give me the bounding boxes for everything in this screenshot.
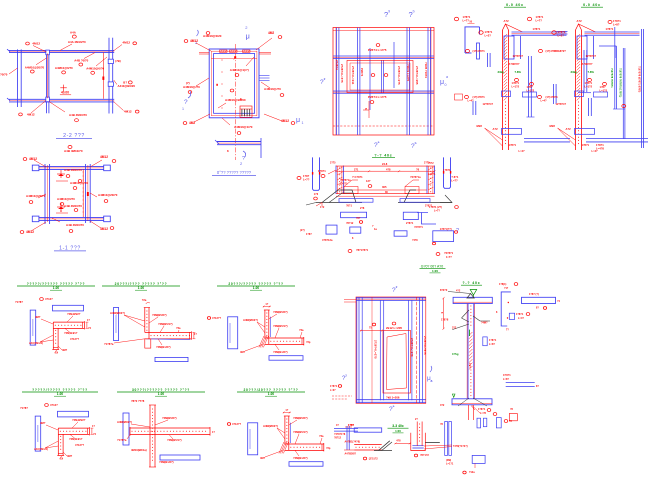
svg-text:P26?4 L=2?5: P26?4 L=2?5 xyxy=(368,48,387,52)
svg-text:?0/70: ?0/70 xyxy=(0,73,8,77)
svg-text:A4B 4M10/70: A4B 4M10/70 xyxy=(64,204,82,208)
svg-text:?16?5?8 ?0?8?1: ?16?5?8 ?0?8?1 xyxy=(610,68,613,88)
svg-text:?1?: ?1? xyxy=(504,287,509,290)
svg-text:?1?8?a: ?1?8?a xyxy=(104,342,114,346)
svg-text:1?8?1: 1?8?1 xyxy=(478,408,486,411)
svg-text:A4B 4M10/70: A4B 4M10/70 xyxy=(64,168,82,172)
svg-text:4?12??: 4?12?? xyxy=(70,337,79,341)
svg-text:8?0?0: 8?0?0 xyxy=(440,289,448,292)
svg-text:4?12??: 4?12?? xyxy=(212,316,221,320)
svg-text:1?8?1: 1?8?1 xyxy=(533,27,541,31)
svg-text:L=4?: L=4? xyxy=(519,149,526,153)
svg-text:L=7?: L=7? xyxy=(536,19,543,23)
svg-text:A?2: A?2 xyxy=(493,127,499,131)
svg-text:4M12: 4M12 xyxy=(281,119,289,123)
svg-text:3-3 40c: 3-3 40c xyxy=(392,424,404,428)
svg-text:12?8?4?: 12?8?4? xyxy=(483,102,494,106)
svg-text:L=8?: L=8? xyxy=(613,23,620,27)
svg-text:4?2: 4?2 xyxy=(440,404,445,407)
svg-text:(1?)4?8?1: (1?)4?8?1 xyxy=(473,49,486,53)
svg-text:0-0 40c: 0-0 40c xyxy=(506,3,524,7)
svg-text:0-0 40c: 0-0 40c xyxy=(583,3,601,7)
svg-text:A4M10@0/?0: A4M10@0/?0 xyxy=(86,66,104,70)
svg-text:?4M,B5/2?: ?4M,B5/2? xyxy=(72,418,86,422)
svg-text:?12a: ?12a xyxy=(469,471,475,474)
svg-text:1?: 1? xyxy=(212,431,215,434)
svg-text:?8?12: ?8?12 xyxy=(334,437,342,440)
svg-text:4?12?: 4?12? xyxy=(45,297,53,301)
svg-text:L=8?: L=8? xyxy=(503,378,509,381)
svg-text:3?2: 3?2 xyxy=(452,327,457,330)
svg-text:0: 0 xyxy=(445,83,447,87)
svg-text:2?26?4 L=3?5: 2?26?4 L=3?5 xyxy=(340,64,344,83)
svg-text:A4?B5/8?: A4?B5/8? xyxy=(345,453,357,456)
svg-text:1?: 1? xyxy=(92,425,95,428)
svg-text:A?08?2?: A?08?2? xyxy=(582,62,593,66)
svg-text:1?8?1: 1?8?1 xyxy=(606,27,614,31)
svg-text:A4?B1(?4?8): A4?B1(?4?8) xyxy=(345,441,361,444)
svg-text:1?8?8: 1?8?8 xyxy=(441,319,449,322)
svg-text:?2?8?1a: ?2?8?1a xyxy=(410,175,421,179)
svg-text:2?8?1: 2?8?1 xyxy=(406,222,414,225)
svg-text:?1?8?a: ?1?8?a xyxy=(117,438,127,442)
svg-text:A?2: A?2 xyxy=(504,19,510,23)
svg-text:1?8?1: 1?8?1 xyxy=(596,143,604,147)
svg-text:?: ? xyxy=(184,99,188,106)
svg-text:L=7?: L=7? xyxy=(463,19,470,23)
svg-text:12?8?4?: 12?8?4? xyxy=(513,54,524,58)
svg-text:A4M10@20/70: A4M10@20/70 xyxy=(98,193,118,197)
svg-text:1: 1 xyxy=(302,121,304,125)
svg-text:4M?: 4M? xyxy=(35,315,41,319)
svg-text:0°?? ????? ?????: 0°?? ????? ????? xyxy=(217,170,252,175)
svg-text:(2?)1?2: (2?)1?2 xyxy=(369,458,379,461)
svg-text:1:20: 1:20 xyxy=(268,392,275,396)
svg-text:?: ? xyxy=(242,156,245,162)
svg-text:34kg: 34kg xyxy=(498,70,505,74)
svg-text:4?12?: 4?12? xyxy=(50,403,58,407)
svg-text:A4M10@/70: A4M10@/70 xyxy=(264,87,281,91)
svg-text:A4B 4M10/70: A4B 4M10/70 xyxy=(64,149,83,153)
svg-text:M22: M22 xyxy=(477,124,483,128)
svg-text:a: a xyxy=(446,75,448,79)
svg-text:L=4?8: L=4?8 xyxy=(596,147,604,151)
svg-text:?4M,B4/1?: ?4M,B4/1? xyxy=(69,437,83,441)
svg-text:1?8?1: 1?8?1 xyxy=(463,15,471,19)
svg-text:L=7?: L=7? xyxy=(434,210,440,213)
svg-text:1?8?1: 1?8?1 xyxy=(485,30,493,34)
svg-text:?2a: ?2a xyxy=(176,326,181,330)
svg-text:L=0?: L=0? xyxy=(330,389,336,392)
svg-text:1.2?: 1.2? xyxy=(468,363,471,368)
svg-text:4?2: 4?2 xyxy=(456,290,461,293)
svg-text:L=1?2: L=1?2 xyxy=(512,85,520,89)
svg-text:A4B 4M10/70: A4B 4M10/70 xyxy=(69,113,87,117)
svg-text:?-? 40c: ?-? 40c xyxy=(374,154,392,158)
svg-text:9: 9 xyxy=(388,10,390,14)
svg-text:2?26?4 L=2?5: 2?26?4 L=2?5 xyxy=(410,338,414,357)
svg-text:12?8?4?: 12?8?4? xyxy=(586,54,597,58)
svg-text:?8?1: ?8?1 xyxy=(346,205,352,208)
svg-text:?4M(B1/2?): ?4M(B1/2?) xyxy=(156,345,171,349)
svg-text:2: 2 xyxy=(324,77,326,81)
svg-text:4M?: 4M? xyxy=(40,421,46,425)
svg-text:4M12: 4M12 xyxy=(100,227,108,231)
svg-text:μ: μ xyxy=(296,117,300,124)
svg-text:1=7?: 1=7? xyxy=(446,256,452,259)
svg-text:A4M10@0/70: A4M10@0/70 xyxy=(57,197,75,201)
svg-text:?-? 40c: ?-? 40c xyxy=(462,281,480,285)
svg-text:4M12: 4M12 xyxy=(29,157,37,161)
svg-text:A4A 4M10/70: A4A 4M10/70 xyxy=(68,40,86,44)
svg-text:L=2?: L=2? xyxy=(485,34,492,38)
svg-text:a: a xyxy=(431,379,433,383)
svg-text:1:20: 1:20 xyxy=(253,286,260,290)
svg-text:L=4?: L=4? xyxy=(541,99,548,103)
svg-text:(1?)4?8?1: (1?)4?8?1 xyxy=(473,95,486,99)
svg-text:b: b xyxy=(413,10,415,14)
svg-text:?8?: ?8? xyxy=(356,217,361,220)
svg-text:?2p: ?2p xyxy=(306,341,311,344)
svg-text:A4M10@0/70: A4M10@0/70 xyxy=(70,181,88,185)
svg-text:2: 2 xyxy=(396,285,398,289)
svg-text:?16?5?8 ?0?8?5 (1?8?1): ?16?5?8 ?0?8?5 (1?8?1) xyxy=(619,68,622,97)
svg-text:A410@B0/20: A410@B0/20 xyxy=(118,84,136,88)
svg-text:2?26?4 L=2?5: 2?26?4 L=2?5 xyxy=(397,66,401,85)
svg-text:4M12: 4M12 xyxy=(190,39,198,43)
svg-text:4M?: 4M? xyxy=(67,454,73,458)
svg-text:7.8%: 7.8% xyxy=(515,70,522,74)
svg-text:?4M(B1/2?): ?4M(B1/2?) xyxy=(293,456,308,460)
svg-text:4M2: 4M2 xyxy=(268,31,274,35)
svg-text:4M12: 4M12 xyxy=(124,109,132,113)
svg-text:1?2: 1?2 xyxy=(320,206,325,209)
svg-text:4?8: 4?8 xyxy=(396,440,401,443)
svg-text:A?2: A?2 xyxy=(566,127,572,131)
svg-text:12?: 12? xyxy=(366,179,371,183)
svg-text:1:20: 1:20 xyxy=(158,392,165,396)
svg-text:L=1?2: L=1?2 xyxy=(527,89,535,93)
svg-text:?=1?8?1: ?=1?8?1 xyxy=(352,175,363,179)
svg-text:4M12: 4M12 xyxy=(26,230,34,234)
svg-text:1?8?: 1?8? xyxy=(303,174,310,178)
svg-text:A4M10@B0/60: A4M10@B0/60 xyxy=(225,98,246,102)
svg-text:?2a: ?2a xyxy=(299,328,304,332)
svg-text:L=2?: L=2? xyxy=(558,34,565,38)
svg-text:2?75: 2?75 xyxy=(330,162,336,165)
svg-text:L=?8: L=?8 xyxy=(480,412,487,415)
svg-text:4M12: 4M12 xyxy=(122,41,130,45)
svg-text:C?kg: C?kg xyxy=(452,352,459,356)
svg-text:A4A: A4A xyxy=(70,31,77,35)
svg-text:2?26?4 L=2?5: 2?26?4 L=2?5 xyxy=(374,340,378,359)
svg-text:(2?): (2?) xyxy=(300,229,305,232)
svg-text:1?8?1: 1?8?1 xyxy=(558,30,566,34)
svg-text:A4M10@20/70: A4M10@20/70 xyxy=(26,194,46,198)
svg-text:?4M,B5/2?: ?4M,B5/2? xyxy=(67,312,81,316)
svg-text:L=1?2: L=1?2 xyxy=(600,89,608,93)
svg-text:4M?: 4M? xyxy=(260,456,266,460)
svg-text:P26?4: P26?4 xyxy=(360,68,364,77)
svg-text:?4M?: ?4M? xyxy=(481,322,488,325)
svg-text:?8?1?8?1: ?8?1?8?1 xyxy=(356,248,369,252)
svg-text:?2a: ?2a xyxy=(142,298,147,302)
svg-text:L=7?: L=7? xyxy=(303,178,310,182)
svg-text:7.8%: 7.8% xyxy=(588,70,595,74)
svg-text:34kg: 34kg xyxy=(571,70,578,74)
svg-text:4M12: 4M12 xyxy=(100,155,108,159)
svg-text:L=8?: L=8? xyxy=(489,343,495,346)
svg-text:b: b xyxy=(415,141,417,145)
svg-text:M22: M22 xyxy=(550,124,556,128)
svg-text:12?8?4?: 12?8?4? xyxy=(556,102,567,106)
svg-text:1=2?1: 1=2?1 xyxy=(428,172,436,176)
svg-text:A4M(B5/2?): A4M(B5/2?) xyxy=(243,318,258,322)
svg-text:?: ? xyxy=(456,228,459,234)
svg-text:L=1?1: L=1?1 xyxy=(446,463,454,466)
svg-text:1:20: 1:20 xyxy=(395,429,401,433)
svg-text:1?8?1: 1?8?1 xyxy=(516,313,524,316)
svg-text:?16?5?8 (0?8?1 8?8?): ?16?5?8 (0?8?1 8?8?) xyxy=(638,66,641,92)
svg-text:305: 305 xyxy=(382,185,387,189)
svg-text:4M10(B6/1a): 4M10(B6/1a) xyxy=(131,448,147,452)
svg-text:1?8?1: 1?8?1 xyxy=(318,169,326,173)
svg-text:?4M(B5/2?): ?4M(B5/2?) xyxy=(162,416,177,420)
svg-text:? 8?1: ? 8?1 xyxy=(451,175,459,179)
svg-text:1?8?1: 1?8?1 xyxy=(489,339,497,342)
svg-text:1?8? (?): 1?8? (?) xyxy=(529,293,539,296)
svg-text:?4M(B5/1?): ?4M(B5/1?) xyxy=(167,438,182,442)
svg-text:1?8?1(??): 1?8?1(??) xyxy=(440,228,452,231)
svg-text:2?26?4: 2?26?4 xyxy=(335,60,339,70)
svg-text:1?: 1? xyxy=(265,303,268,306)
svg-text:A4B 4M10/70: A4B 4M10/70 xyxy=(66,223,84,227)
svg-text:1?8?1 (2?): 1?8?1 (2?) xyxy=(429,205,442,209)
svg-text:4M?: 4M? xyxy=(62,348,68,352)
svg-text:?2?8?1a: ?2?8?1a xyxy=(340,178,351,182)
svg-text:C?8?1: C?8?1 xyxy=(503,374,511,377)
svg-text:P26?4 L=2?5: P26?4 L=2?5 xyxy=(368,95,387,99)
svg-text:1?: 1? xyxy=(285,409,288,412)
svg-text:L=2?1: L=2?1 xyxy=(340,182,348,186)
svg-text:4M?: 4M? xyxy=(240,350,246,354)
svg-text:1?8?1: 1?8?1 xyxy=(509,143,517,147)
svg-text:1?8?1: 1?8?1 xyxy=(443,168,451,172)
svg-text:40.00: 40.00 xyxy=(61,91,69,95)
svg-text:2?26?4 L=255: 2?26?4 L=255 xyxy=(415,66,419,85)
svg-text:A?2: A?2 xyxy=(577,19,583,23)
svg-text:A4M(B5/2?): A4M(B5/2?) xyxy=(110,311,125,315)
svg-text:4?12??: 4?12?? xyxy=(75,443,84,447)
svg-text:μ: μ xyxy=(440,79,444,86)
svg-text:?16/5 ?1074: ?16/5 ?1074 xyxy=(424,62,428,78)
svg-text:2?26?4 L=211: 2?26?4 L=211 xyxy=(351,66,355,85)
svg-text:?8?12: ?8?12 xyxy=(346,222,354,225)
svg-text:L=1?2: L=1?2 xyxy=(585,85,593,89)
svg-text:1?8?1: 1?8?1 xyxy=(582,143,590,147)
svg-text:?4M(B5/2?): ?4M(B5/2?) xyxy=(273,310,288,314)
svg-text:1?8?: 1?8? xyxy=(306,233,312,236)
svg-text:1?8?1: 1?8?1 xyxy=(536,15,544,19)
svg-text:L=4?: L=4? xyxy=(468,99,475,103)
svg-text:?1?8?: ?1?8? xyxy=(15,300,23,304)
svg-text:μ: μ xyxy=(246,32,250,41)
svg-text:L=4?: L=4? xyxy=(518,317,524,320)
svg-text:A?08?2?: A?08?2? xyxy=(509,62,520,66)
svg-text:?2a: ?2a xyxy=(319,434,324,438)
svg-text:24.8: 24.8 xyxy=(382,162,388,166)
svg-text:1?8(1): 1?8(1) xyxy=(499,283,507,286)
svg-text:2?26?4 L=8?5: 2?26?4 L=8?5 xyxy=(423,336,427,355)
svg-text:L=7?: L=7? xyxy=(451,179,458,183)
svg-text:A4M(B5/2?): A4M(B5/2?) xyxy=(117,420,132,424)
svg-text:1:20: 1:20 xyxy=(138,286,145,290)
svg-text:?k8 1=206: ?k8 1=206 xyxy=(386,396,400,400)
svg-text:?4?8: ?4?8 xyxy=(412,239,418,242)
svg-text:a: a xyxy=(378,140,380,144)
svg-text:4?8?12a: 4?8?12a xyxy=(322,238,333,242)
svg-text:(7): (7) xyxy=(186,81,190,85)
svg-text:?4M(B5/2?): ?4M(B5/2?) xyxy=(293,416,308,420)
svg-text:?2?8?1: ?2?8?1 xyxy=(414,226,423,229)
svg-text:(1?)4?8?1: (1?)4?8?1 xyxy=(546,49,559,53)
svg-text:a: a xyxy=(393,404,395,408)
svg-text:1: 1 xyxy=(182,107,184,111)
svg-text:2?8: 2?8 xyxy=(360,207,365,210)
svg-text:?2?8?1: ?2?8?1 xyxy=(444,251,454,255)
svg-text:?4M(B5/2?): ?4M(B5/2?) xyxy=(152,313,167,317)
svg-text:A4M10@0/70: A4M10@0/70 xyxy=(55,66,73,70)
svg-text:?4M(B5/1?): ?4M(B5/1?) xyxy=(273,324,288,328)
svg-text:A4M10@0/20: A4M10@0/20 xyxy=(203,34,222,38)
svg-text:1?8?1: 1?8?1 xyxy=(330,385,338,388)
svg-text:271: 271 xyxy=(354,168,359,172)
svg-text:4?8: 4?8 xyxy=(386,168,391,172)
svg-text:?4M(B1/2?): ?4M(B1/2?) xyxy=(159,460,174,464)
svg-text:4?12??: 4?12?? xyxy=(232,422,241,426)
svg-text:?4M(B1/2?): ?4M(B1/2?) xyxy=(273,350,288,354)
svg-text:(7B): (7B) xyxy=(115,59,121,63)
svg-text:?4M,B4/1?: ?4M,B4/1? xyxy=(64,331,78,335)
svg-text:1?: 1? xyxy=(87,319,90,322)
svg-text:A4M10@20/70: A4M10@20/70 xyxy=(25,65,45,69)
svg-text:4M12: 4M12 xyxy=(32,42,40,46)
svg-text:A: A xyxy=(60,209,62,213)
svg-text:?4M(B5/1?): ?4M(B5/1?) xyxy=(293,430,308,434)
svg-text:1:20: 1:20 xyxy=(53,286,60,290)
svg-text:1:20: 1:20 xyxy=(57,392,64,396)
svg-text:A4M10@/70: A4M10@/70 xyxy=(183,85,200,89)
svg-text:2k12 L=205: 2k12 L=205 xyxy=(386,326,402,330)
svg-text:1?: 1? xyxy=(194,333,197,336)
svg-text:?5?2: ?5?2 xyxy=(428,162,434,165)
svg-text:(1?)4?8?1: (1?)4?8?1 xyxy=(546,95,559,99)
svg-text:A4M10@1/70: A4M10@1/70 xyxy=(234,125,253,129)
svg-text:?4M(B5/1?): ?4M(B5/1?) xyxy=(158,322,173,326)
svg-text:?1?8?: ?1?8? xyxy=(20,406,28,410)
svg-text:A4M10@1(/?): A4M10@1(/?) xyxy=(230,68,249,72)
svg-text:?2p: ?2p xyxy=(326,447,331,450)
svg-text:A4M(B5/2?): A4M(B5/2?) xyxy=(263,424,278,428)
svg-text:1:20: 1:20 xyxy=(432,269,438,273)
svg-text:1?6: 1?6 xyxy=(314,193,319,196)
svg-text:A4B ?0/70: A4B ?0/70 xyxy=(74,59,88,63)
svg-text:?4?8(?1?2?): ?4?8(?1?2?) xyxy=(453,445,468,448)
svg-text:?8?1?2: ?8?1?2 xyxy=(420,454,429,457)
svg-text:?8?2 ?7?8: ?8?2 ?7?8 xyxy=(131,399,145,403)
svg-text:?26?4 L=2?5: ?26?4 L=2?5 xyxy=(406,64,410,81)
svg-text:1?8?1: 1?8?1 xyxy=(613,19,621,23)
svg-text:4M12: 4M12 xyxy=(27,112,35,116)
